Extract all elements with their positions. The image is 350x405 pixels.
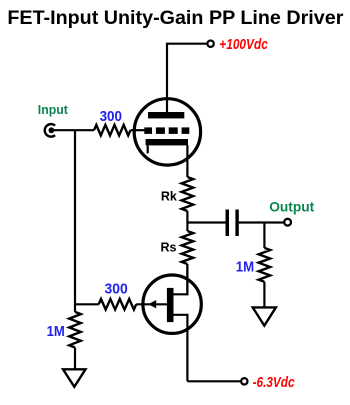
tube V1 grid (dashed) [144, 127, 189, 133]
wire: 1M right to ground [263, 282, 265, 308]
svg-text:300: 300 [105, 280, 128, 297]
svg-text:Output: Output [269, 200, 314, 215]
input jack [45, 124, 55, 137]
resistor 1M (left) [69, 312, 81, 348]
capacitor C1 [226, 210, 239, 237]
wire: junction to capacitor [187, 221, 225, 223]
svg-text:1M: 1M [236, 260, 254, 276]
svg-text:Rs: Rs [161, 239, 177, 254]
wire: 1M left to ground [74, 348, 76, 370]
resistor Rs [182, 231, 194, 264]
FET Q1 channel [167, 288, 174, 322]
FET Q1 drain lead [173, 264, 187, 294]
resistor 300 (bottom) [99, 299, 137, 310]
resistor 300 (top) [94, 125, 131, 136]
tube V1 cathode [146, 139, 188, 145]
terminal -6.3Vdc [241, 378, 247, 384]
wire: FET source to -6.3Vdc terminal [187, 380, 241, 382]
terminal Output [284, 219, 291, 226]
resistor Rk [182, 177, 194, 211]
ground (right) [253, 307, 276, 325]
FET Q1 source lead [173, 315, 187, 382]
wire: output node down to 1M [263, 223, 265, 248]
svg-text:FET-Input Unity-Gain PP Line D: FET-Input Unity-Gain PP Line Driver [7, 8, 343, 29]
terminal +100Vdc [207, 41, 213, 47]
wire: capacitor to output [239, 221, 285, 223]
svg-text:1M: 1M [47, 324, 65, 340]
tube V1 plate [148, 112, 184, 118]
FET Q1 envelope [143, 275, 201, 333]
wire: R300a to grid [131, 129, 147, 131]
wire: R300b to FET gate [136, 303, 167, 305]
wire: Rs to FET drain [186, 264, 188, 294]
tube V1 envelope [134, 99, 200, 165]
wire: +100Vdc supply to plate [167, 44, 208, 112]
svg-text:Rk: Rk [161, 188, 178, 203]
svg-text:+100Vdc: +100Vdc [219, 36, 268, 53]
wire: input jack to R300a [53, 129, 95, 131]
wire: left vertical bus [74, 130, 76, 312]
wire: cathode to Rk [186, 145, 188, 177]
svg-text:-6.3Vdc: -6.3Vdc [253, 375, 295, 391]
wire: Rk to Rs through junction [186, 211, 188, 231]
svg-text:Input: Input [38, 102, 69, 117]
FET Q1 gate arrow [148, 300, 156, 308]
resistor 1M (right) [259, 248, 271, 282]
svg-text:300: 300 [100, 108, 122, 125]
ground (left) [63, 369, 86, 387]
tube V1 cathode stub [147, 145, 149, 153]
wire: left bus to R300b [75, 303, 99, 305]
